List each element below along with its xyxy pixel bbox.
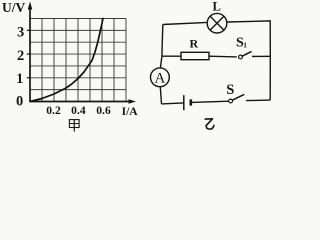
svg-text:1: 1 — [243, 41, 247, 49]
svg-text:0.4: 0.4 — [71, 104, 86, 117]
grid — [30, 19, 126, 102]
caption 乙 (drawn glyph) — [205, 119, 214, 129]
wire bottom-left to battery — [162, 103, 184, 104]
resistor R — [181, 52, 209, 59]
svg-text:1: 1 — [16, 71, 23, 87]
switch S1 — [239, 51, 252, 58]
y-axis — [28, 2, 33, 102]
wire middle branch left — [162, 55, 181, 57]
y ticks — [27, 30, 30, 77]
battery — [184, 95, 191, 110]
svg-text:A: A — [154, 71, 165, 87]
lamp L — [207, 13, 227, 33]
x-axis — [30, 99, 136, 103]
svg-text:0.2: 0.2 — [46, 104, 61, 117]
svg-text:S: S — [226, 82, 234, 98]
wire resistor to switch S1 — [209, 55, 237, 58]
svg-text:I/A: I/A — [122, 106, 139, 118]
switch S — [229, 94, 244, 103]
wire switch S to bottom-right corner — [246, 99, 270, 102]
caption 甲 (drawn glyph) — [69, 120, 79, 132]
wire left junction down to ammeter — [160, 56, 162, 68]
svg-text:2: 2 — [17, 48, 24, 64]
wire switch S1 to right wire — [252, 55, 270, 57]
wire left side top — [161, 25, 164, 57]
svg-text:0: 0 — [16, 94, 23, 110]
wire top-left to lamp — [163, 22, 208, 24]
ammeter A — [151, 68, 170, 87]
svg-text:R: R — [189, 37, 198, 51]
curve — [30, 19, 103, 102]
svg-text:0.6: 0.6 — [96, 104, 111, 117]
wire battery to switch S — [192, 101, 229, 102]
wire ammeter to bottom-left corner — [160, 87, 161, 104]
svg-text:3: 3 — [17, 25, 24, 41]
svg-text:L: L — [213, 0, 221, 14]
svg-text:U/V: U/V — [2, 0, 26, 15]
wire lamp to top-right corner and down — [227, 21, 271, 56]
wire right side lower — [269, 56, 271, 100]
